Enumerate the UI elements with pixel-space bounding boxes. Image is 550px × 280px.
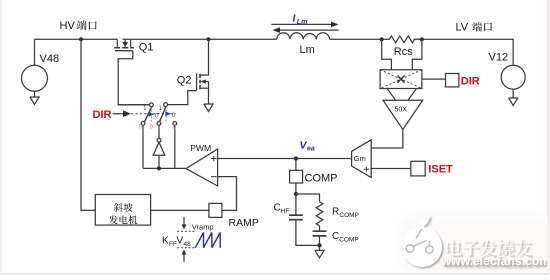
wire DIR arrow	[113, 113, 124, 115]
label ILm	[293, 13, 308, 26]
svg-text:HF: HF	[281, 208, 290, 215]
wire multiplier left input	[382, 39, 392, 69]
terminal COMP	[290, 170, 303, 183]
wire rail Rcs to LV	[422, 39, 513, 65]
ramp generator	[95, 195, 150, 226]
terminal DIR right	[446, 74, 459, 87]
capacitor CCOMP	[313, 231, 359, 244]
svg-text:48: 48	[184, 241, 192, 248]
svg-text:ISET: ISET	[428, 163, 453, 175]
svg-text:COMP: COMP	[305, 172, 338, 184]
node ramp feed	[79, 37, 83, 41]
resistor Rcs	[382, 36, 422, 43]
wire COMP to node	[295, 183, 297, 194]
watermark text	[441, 239, 550, 268]
svg-text:Q1: Q1	[139, 42, 154, 54]
annotation arrow down	[183, 217, 185, 225]
current arrow ILm left	[280, 29, 339, 31]
svg-text:DIR: DIR	[93, 109, 112, 121]
svg-text:50X: 50X	[395, 106, 408, 113]
svg-text:V12: V12	[489, 52, 509, 64]
terminal RAMP	[209, 203, 222, 217]
annotation arrow up	[183, 254, 185, 262]
svg-text:Vramp: Vramp	[192, 223, 214, 232]
label Vea	[300, 140, 315, 153]
svg-text:RAMP: RAMP	[229, 217, 259, 229]
svg-text:Lm: Lm	[300, 44, 315, 56]
switch alternate position	[152, 107, 167, 122]
svg-text:V: V	[177, 236, 184, 247]
wire 50X output to Gm	[371, 130, 403, 149]
svg-text:Lm: Lm	[297, 19, 308, 26]
wire switch S2 throw right	[174, 126, 176, 169]
voltage source V48	[34, 39, 36, 65]
amplifier 50X	[383, 100, 423, 129]
svg-text:Q2: Q2	[177, 75, 192, 87]
node Rcs left	[380, 37, 384, 41]
wire multiplier to DIR terminal	[422, 78, 446, 80]
node compensation	[294, 192, 298, 196]
wire rail inductor to Rcs	[330, 38, 382, 40]
wire switch S1 throw	[142, 126, 144, 169]
svg-text:V48: V48	[40, 53, 60, 65]
svg-text:COMP: COMP	[339, 236, 359, 243]
wire ramp feed	[81, 39, 95, 210]
node compensation ground	[317, 243, 321, 247]
label HV port	[60, 20, 97, 32]
wire multiplier right input	[412, 39, 422, 69]
watermark background	[400, 214, 550, 275]
node Rcs right	[420, 37, 424, 41]
svg-text:C: C	[332, 231, 339, 242]
amplifier Gm	[352, 140, 372, 178]
label KFF V48	[162, 236, 191, 248]
switch direction marks	[139, 106, 177, 131]
switch S1	[141, 103, 153, 125]
wire HV rail left	[35, 38, 118, 40]
ground compensation	[315, 250, 324, 257]
svg-text:HV: HV	[60, 20, 76, 32]
capacitor CHF	[274, 194, 320, 245]
ground V48	[30, 91, 39, 104]
voltage source V12	[501, 65, 525, 89]
wire RCOMP to CCOMP	[319, 226, 321, 231]
inductor Lm	[277, 33, 330, 40]
waveform ramp	[195, 233, 220, 248]
svg-text:LV: LV	[456, 21, 469, 33]
svg-text:R: R	[332, 207, 339, 218]
transistor Q2	[177, 39, 209, 104]
transistor Q1	[114, 39, 153, 53]
ground V12	[509, 89, 518, 105]
svg-text:Rcs: Rcs	[394, 46, 413, 58]
ground Q2	[204, 104, 213, 111]
wire ramp generator to RAMP terminal	[151, 209, 209, 211]
svg-text:www.elecfans.com: www.elecfans.com	[441, 254, 550, 268]
wire PWM output	[143, 167, 186, 169]
annotation dashed top	[177, 230, 196, 232]
node PWM output	[157, 166, 161, 170]
resistor RCOMP	[316, 202, 323, 226]
multiplier U2	[380, 70, 422, 89]
annotation dashed bottom	[177, 247, 196, 249]
wire CCOMP to ground	[319, 236, 321, 250]
watermark logo	[402, 216, 442, 268]
current arrow ILm right	[271, 23, 331, 25]
svg-text:K: K	[162, 236, 169, 247]
svg-text:DIR: DIR	[461, 76, 480, 88]
svg-text:ea: ea	[307, 146, 315, 153]
svg-text:COMP: COMP	[339, 212, 359, 219]
comparator PWM	[186, 143, 218, 186]
wire Vea line	[218, 158, 352, 160]
inverter U3	[153, 126, 165, 169]
image edge shading	[0, 0, 2, 275]
wire switch S1 pole	[118, 104, 149, 106]
node Q2 drain	[206, 37, 210, 41]
terminal ISET	[411, 161, 425, 176]
switch S2	[157, 103, 177, 126]
node Vea	[294, 156, 298, 160]
svg-text:Gm: Gm	[354, 154, 366, 163]
wire RCOMP branch	[296, 194, 320, 202]
wire Q1 gate to switch S1	[118, 51, 149, 105]
wire HV rail right	[123, 38, 277, 40]
wire Vea to COMP	[295, 159, 297, 171]
wire Gm to ISET	[371, 168, 411, 170]
wire PWM inverting input to RAMP	[218, 177, 237, 211]
wire multiplier to 50X	[387, 89, 416, 101]
label LV port	[456, 21, 493, 33]
svg-text:PWM: PWM	[190, 143, 211, 153]
wire Q2 gate to switch S2	[168, 91, 197, 105]
svg-text:C: C	[274, 203, 281, 214]
